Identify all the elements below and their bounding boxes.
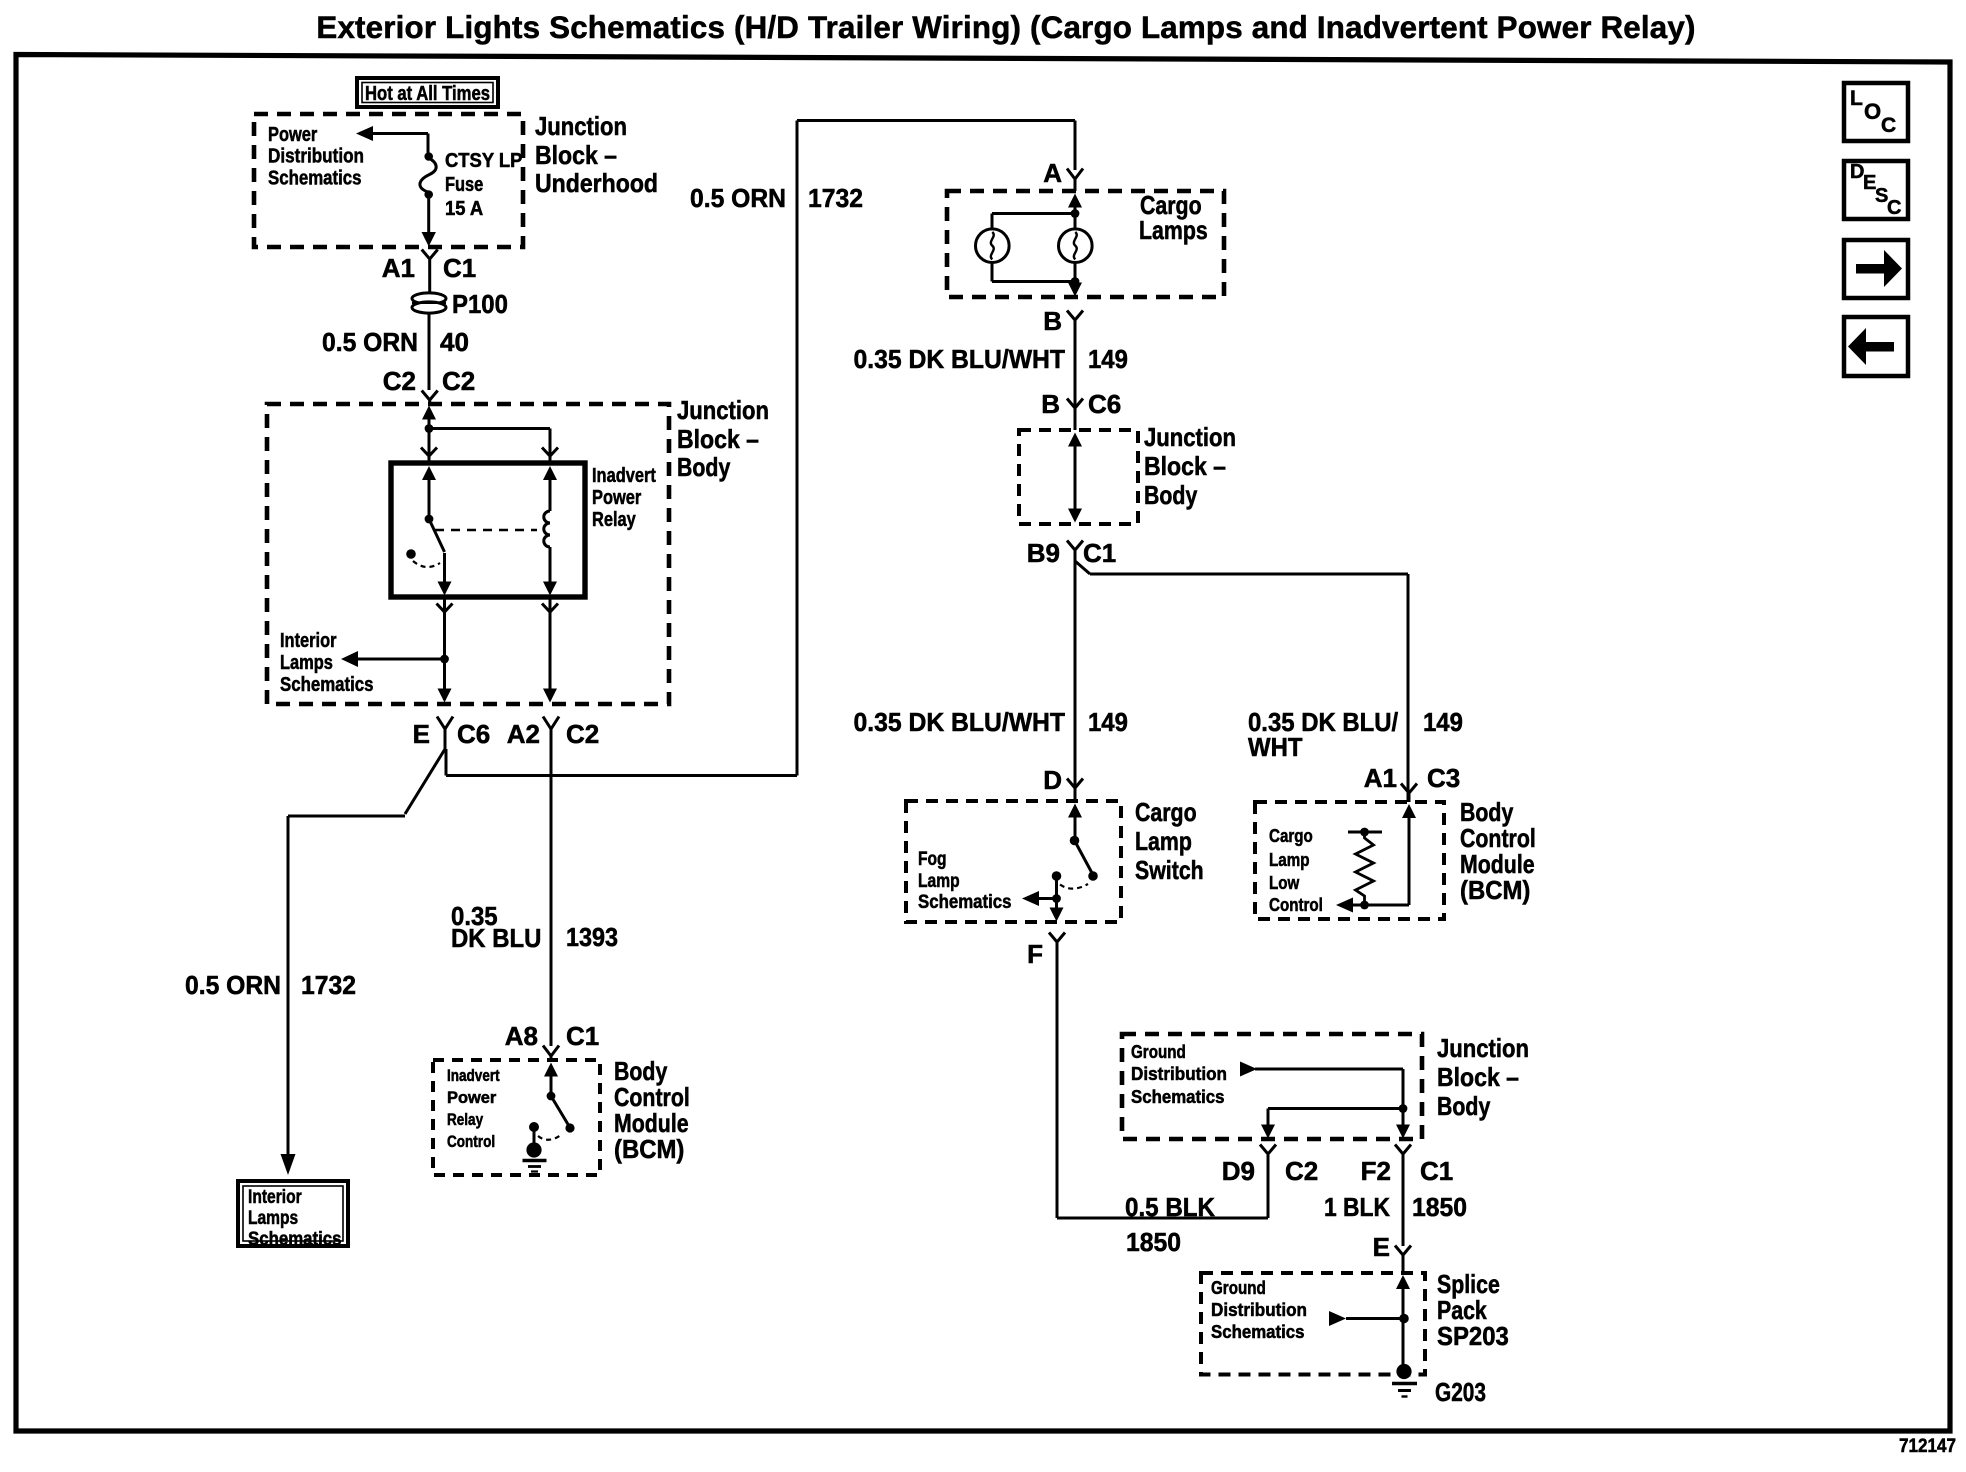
svg-text:C6: C6 [1088,389,1121,419]
svg-text:C6: C6 [457,719,490,749]
svg-text:Relay: Relay [592,509,637,531]
svg-text:149: 149 [1423,707,1463,737]
svg-text:Power: Power [268,124,317,146]
svg-text:F2: F2 [1361,1156,1391,1186]
svg-text:C2: C2 [566,719,599,749]
svg-text:C1: C1 [443,253,476,283]
svg-text:Junction: Junction [1144,422,1236,452]
svg-text:Body: Body [1437,1091,1491,1121]
svg-text:Lamps: Lamps [1139,215,1208,245]
svg-text:149: 149 [1088,344,1128,374]
svg-text:B: B [1041,389,1060,419]
svg-text:Schematics: Schematics [918,892,1012,913]
svg-text:G203: G203 [1435,1377,1486,1407]
svg-text:0.5 BLK: 0.5 BLK [1125,1192,1215,1222]
svg-text:Cargo: Cargo [1135,797,1197,827]
svg-text:Power: Power [447,1089,497,1107]
svg-text:1393: 1393 [566,922,618,952]
svg-text:C2: C2 [383,366,416,396]
svg-text:Lamps: Lamps [248,1208,298,1229]
svg-text:A1: A1 [1364,763,1397,793]
svg-text:Schematics: Schematics [1131,1086,1225,1107]
svg-text:C2: C2 [442,366,475,396]
svg-text:Junction: Junction [1437,1033,1529,1063]
svg-text:Lamp: Lamp [1135,826,1192,856]
svg-text:0.5 ORN: 0.5 ORN [322,327,418,357]
svg-text:Junction: Junction [677,395,769,425]
svg-text:D9: D9 [1222,1156,1255,1186]
svg-text:C: C [1881,114,1896,137]
svg-text:Block –: Block – [1144,451,1226,481]
svg-text:Switch: Switch [1135,855,1204,885]
svg-text:E: E [413,719,430,749]
svg-text:Ground: Ground [1211,1277,1266,1298]
svg-text:D: D [1043,765,1062,795]
svg-text:Fuse: Fuse [445,174,483,196]
svg-text:Schematics: Schematics [248,1229,342,1250]
svg-text:Cargo: Cargo [1269,825,1313,846]
svg-text:0.5 ORN: 0.5 ORN [185,970,281,1000]
svg-text:CTSY LP: CTSY LP [445,150,522,172]
svg-text:Interior: Interior [248,1187,302,1208]
svg-text:Power: Power [592,487,641,509]
svg-text:Distribution: Distribution [268,146,364,168]
svg-text:1 BLK: 1 BLK [1324,1192,1390,1222]
svg-text:C3: C3 [1427,763,1460,793]
svg-text:0.5 ORN: 0.5 ORN [690,183,786,213]
svg-text:Junction: Junction [535,111,627,141]
svg-text:E: E [1373,1232,1390,1262]
svg-text:WHT: WHT [1248,732,1303,762]
svg-text:C: C [1887,197,1901,219]
svg-text:1732: 1732 [808,183,863,213]
svg-text:Schematics: Schematics [268,168,362,190]
svg-text:40: 40 [440,327,469,357]
svg-text:Schematics: Schematics [1211,1321,1305,1342]
svg-text:712147: 712147 [1899,1436,1956,1457]
svg-text:149: 149 [1088,707,1128,737]
svg-text:Control: Control [1269,894,1323,915]
svg-text:Lamp: Lamp [1269,849,1310,870]
svg-text:Block –: Block – [677,424,759,454]
svg-text:C1: C1 [566,1021,599,1051]
svg-text:Fog: Fog [918,849,947,870]
svg-text:B: B [1043,306,1062,336]
svg-text:Block –: Block – [1437,1062,1519,1092]
svg-text:Hot at All Times: Hot at All Times [365,83,490,105]
svg-text:Body: Body [677,452,731,482]
svg-text:Distribution: Distribution [1131,1063,1227,1084]
svg-text:1850: 1850 [1412,1192,1467,1222]
svg-text:A: A [1043,158,1062,188]
svg-text:Distribution: Distribution [1211,1299,1307,1320]
svg-text:Block –: Block – [535,140,617,170]
svg-text:Inadvert: Inadvert [592,465,656,487]
svg-text:Lamp: Lamp [918,871,960,892]
svg-text:Ground: Ground [1131,1041,1186,1062]
svg-text:C1: C1 [1420,1156,1453,1186]
svg-text:Underhood: Underhood [535,168,658,198]
svg-text:A2: A2 [507,719,540,749]
svg-text:A8: A8 [505,1021,538,1051]
svg-text:Body: Body [1144,480,1198,510]
svg-text:Low: Low [1269,872,1300,893]
svg-text:Inadvert: Inadvert [447,1067,500,1085]
svg-text:0.35 DK BLU/WHT: 0.35 DK BLU/WHT [854,707,1066,737]
svg-text:(BCM): (BCM) [1460,875,1530,905]
svg-text:(BCM): (BCM) [614,1134,684,1164]
svg-text:Interior: Interior [280,630,337,652]
svg-text:SP203: SP203 [1437,1321,1509,1351]
svg-text:Relay: Relay [447,1111,484,1129]
svg-text:0.35 DK BLU/WHT: 0.35 DK BLU/WHT [854,344,1066,374]
svg-text:1850: 1850 [1126,1227,1181,1257]
svg-text:Lamps: Lamps [280,652,333,674]
svg-text:Schematics: Schematics [280,674,374,696]
svg-text:F: F [1027,939,1043,969]
svg-text:15 A: 15 A [445,198,483,220]
svg-text:L: L [1850,87,1863,110]
svg-text:C2: C2 [1285,1156,1318,1186]
svg-text:B9: B9 [1027,538,1060,568]
svg-text:C1: C1 [1083,538,1116,568]
svg-text:O: O [1864,99,1881,124]
svg-text:P100: P100 [452,289,508,319]
svg-text:Exterior Lights Schematics (H/: Exterior Lights Schematics (H/D Trailer … [316,10,1695,45]
svg-text:Control: Control [447,1133,495,1151]
svg-text:DK BLU: DK BLU [451,923,541,953]
svg-text:1732: 1732 [301,970,356,1000]
svg-text:A1: A1 [382,253,415,283]
